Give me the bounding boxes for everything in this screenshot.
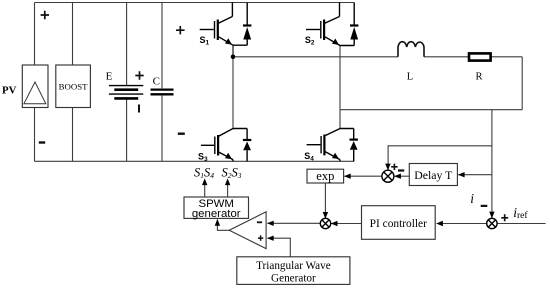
- block Triangular Wave Generator: [237, 257, 350, 285]
- battery E: [109, 86, 143, 99]
- wire right leg S2 to S4: [339, 46, 341, 129]
- comparator U1: [229, 212, 266, 249]
- svg-text:PI controller: PI controller: [370, 218, 427, 230]
- arrow TWG into comparator plus: [267, 236, 274, 241]
- svg-text:S1S4: S1S4: [194, 166, 214, 181]
- diode D3: [233, 129, 251, 162]
- wire current feedback vertical: [491, 110, 493, 218]
- wire resistor to right corner: [491, 56, 522, 58]
- arrow SPWM up S1S4: [202, 178, 207, 185]
- plus label at X2: [501, 214, 508, 221]
- plus label comparator: [258, 235, 263, 240]
- battery plus label: [135, 71, 143, 79]
- svg-text:BOOST: BOOST: [59, 82, 88, 92]
- arrow into X1 down: [385, 164, 390, 171]
- wire X2 output to PI: [437, 223, 487, 225]
- block Delay T: [409, 164, 457, 186]
- node plus label bridge left: [176, 26, 185, 34]
- svg-text:iref: iref: [513, 205, 528, 221]
- transistor S4: [307, 129, 340, 162]
- wire exp output down to X3: [324, 183, 326, 218]
- converter BOOST: [56, 65, 91, 108]
- wire TWG to comparator plus input: [268, 238, 291, 257]
- arrow into Delay T: [458, 172, 465, 177]
- wire boost vertical: [72, 3, 74, 162]
- PV source PV: [2, 65, 48, 108]
- wire X3 output to comparator: [268, 222, 321, 224]
- wire bottom rail: [35, 160, 355, 162]
- block SPWM generator: [184, 197, 249, 220]
- wire load return: [340, 109, 522, 111]
- svg-text:i: i: [470, 191, 474, 206]
- resistor R: [469, 53, 491, 60]
- wire branch to summing junction X1: [388, 146, 492, 170]
- summing junction X2: [487, 218, 497, 228]
- wire left vertical through PV: [34, 3, 36, 162]
- svg-text:Triangular Wave: Triangular Wave: [256, 260, 331, 272]
- svg-text:L: L: [407, 72, 413, 83]
- svg-text:exp: exp: [316, 169, 334, 183]
- svg-text:S4: S4: [304, 151, 314, 163]
- wire inductor to resistor: [424, 56, 469, 58]
- block exp: [307, 169, 344, 183]
- transistor S3: [201, 129, 233, 162]
- minus label comparator: [257, 221, 262, 223]
- arrow comparator into SPWM: [215, 219, 220, 226]
- block PI controller: [362, 206, 436, 240]
- svg-text:E: E: [106, 70, 113, 82]
- wire top rail: [35, 2, 355, 4]
- arrow PI into X3: [331, 221, 338, 226]
- arrow Delay T to X1: [394, 174, 401, 179]
- transistor S2: [306, 3, 340, 46]
- arrow SPWM up S2S3: [225, 178, 230, 185]
- minus label at X2: [481, 205, 488, 207]
- diode D2: [340, 3, 358, 46]
- wire SPWM output arrows shafts: [205, 182, 228, 197]
- arrow exp into X3: [323, 212, 328, 219]
- node minus label bottom-left: [39, 141, 45, 143]
- arrow X2 into PI controller: [436, 221, 443, 226]
- svg-text:S2S3: S2S3: [222, 166, 242, 181]
- arrow X3 into comparator minus: [267, 221, 274, 226]
- wire X1 output to exp: [344, 175, 382, 177]
- transistor S1: [200, 3, 233, 57]
- wire Delay T output to X1: [395, 175, 410, 177]
- summing junction X1: [382, 170, 394, 182]
- plus label at X1: [391, 164, 397, 170]
- wire PI output to X3: [331, 223, 361, 225]
- arrow X1 output into exp: [344, 174, 351, 179]
- diode D4: [340, 129, 358, 162]
- node minus label bridge left: [178, 132, 185, 134]
- wire right side down: [521, 57, 523, 110]
- inductor L: [398, 42, 424, 57]
- node plus label top-left: [41, 11, 49, 19]
- svg-text:Delay T: Delay T: [414, 168, 453, 182]
- wire battery vertical: [126, 3, 128, 162]
- svg-text:S3: S3: [198, 151, 208, 163]
- wire capacitor vertical: [161, 3, 163, 162]
- battery minus tick: [138, 105, 140, 113]
- arrow into X2 down: [489, 212, 494, 219]
- wire iref input: [497, 223, 545, 225]
- svg-text:generator: generator: [192, 208, 241, 220]
- wire comparator output to SPWM: [217, 220, 229, 231]
- svg-text:C: C: [153, 76, 160, 88]
- svg-text:R: R: [475, 72, 482, 83]
- svg-text:Generator: Generator: [271, 273, 316, 285]
- svg-text:PV: PV: [2, 85, 17, 97]
- diode D1: [233, 3, 251, 46]
- minus label at X1: [398, 169, 404, 171]
- summing junction X3: [320, 218, 330, 228]
- wire node A to inductor: [233, 56, 398, 58]
- capacitor C: [151, 90, 174, 95]
- node A junction dot: [231, 55, 236, 60]
- svg-text:S2: S2: [305, 35, 315, 47]
- svg-text:S1: S1: [200, 35, 210, 47]
- wire node A down to S3: [232, 57, 234, 129]
- wire branch to Delay T input: [458, 174, 492, 176]
